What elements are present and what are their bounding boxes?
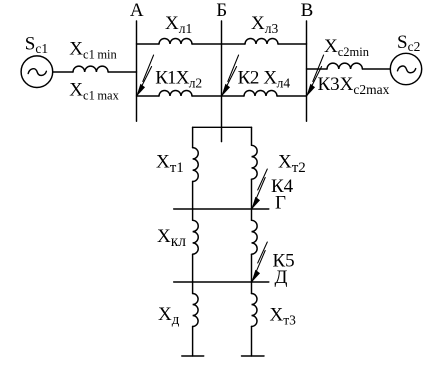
inductor X_л3 [245,39,278,45]
bus В [306,21,308,121]
svg-text:А: А [130,0,144,21]
wire source S_c1 to coil [53,71,73,73]
wire Г to coil right [251,209,253,220]
wire right branch upper [251,127,253,145]
wire Д to coil right [251,282,253,294]
wire line1 right segment [278,43,307,45]
wire coil to source S_c2 [362,68,390,70]
svg-text:В: В [301,0,314,21]
source S_c1 [21,56,53,88]
svg-text:Г: Г [275,193,286,214]
node Г line [174,208,269,210]
fault K3 bolt [307,55,324,96]
inductor X_л2 [159,91,192,97]
fault K4 bolt [252,169,267,209]
transformer X_т1 [193,148,199,182]
inductor X_c1 [73,66,108,72]
ground left [182,355,204,357]
inductor X_л1 [159,39,192,45]
cable X_кл [193,220,199,254]
svg-text:Д: Д [275,267,288,288]
bus A [136,21,138,121]
wire line2 right segment [277,95,307,97]
ground right [242,355,265,357]
transformer top wire [193,126,252,128]
inductor X_л4 [244,91,277,97]
inductor X_c2 [327,63,362,69]
transformer X_т3 [252,294,258,327]
wire bus В to coil [307,68,328,70]
wire line2 middle segment [192,95,244,97]
wire left branch lower [192,182,194,210]
wire coil to ground left [192,327,194,357]
svg-text:Б: Б [216,0,227,21]
wire line1 left segment [137,43,160,45]
inductor right Г-Д [252,220,258,254]
bus Б [221,21,223,142]
wire Д to coil left [192,282,194,294]
wire left branch upper [192,127,194,147]
transformer X_т2 [252,145,258,179]
fault K2 bolt [222,55,239,96]
wire coil to ground right [251,327,253,357]
fault K5 bolt [252,242,267,282]
wire coil to Д left [192,254,194,282]
reactor X_д [193,294,199,327]
fault K1 bolt [137,55,154,96]
wire Г to coil left [192,209,194,220]
wire line1 middle segment [192,43,245,45]
source S_c2 [390,53,421,84]
node Д line [174,281,269,283]
wire coil to bus A [108,71,136,73]
wire right branch lower [251,179,253,209]
wire line2 left segment [137,95,160,97]
wire coil to Д right [251,254,253,282]
